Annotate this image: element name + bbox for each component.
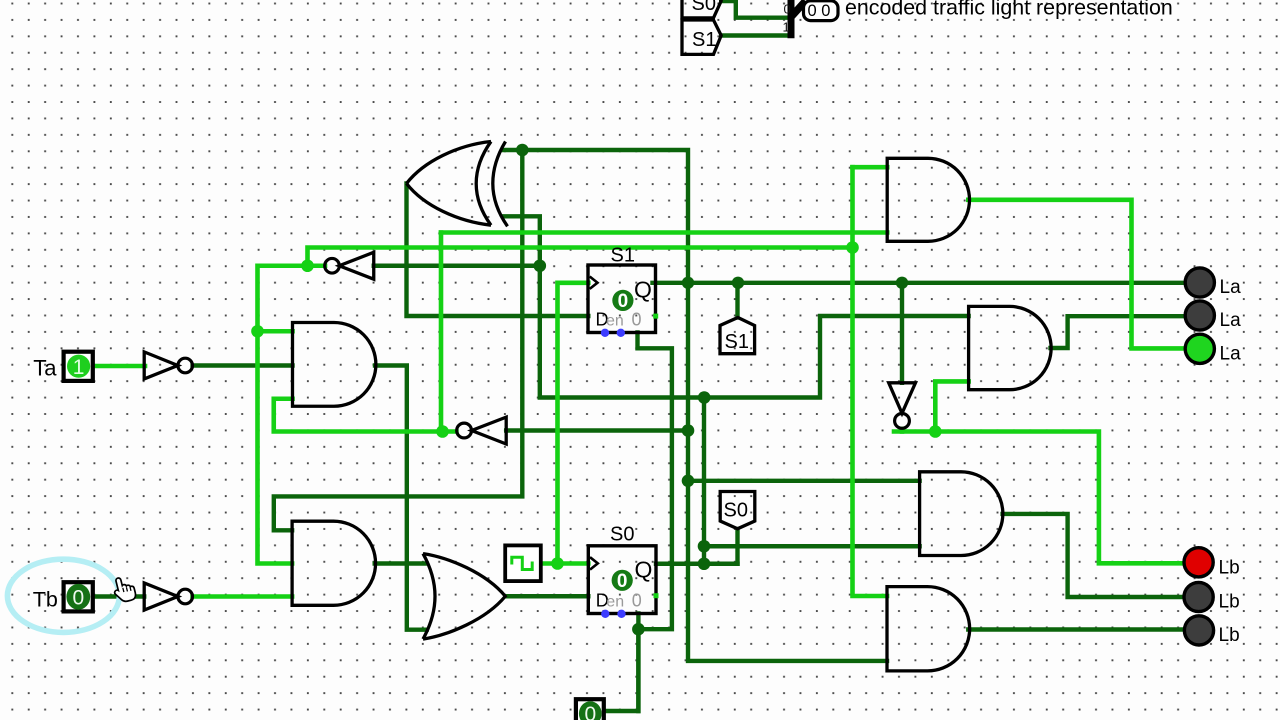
svg-text:Lb: Lb (1219, 557, 1240, 578)
svg-text:La: La (1220, 277, 1242, 298)
svg-text:S1: S1 (611, 245, 635, 267)
svg-text:0: 0 (72, 586, 84, 609)
svg-text:0 0: 0 0 (808, 2, 831, 20)
svg-text:0: 0 (617, 571, 628, 592)
svg-text:La: La (1220, 344, 1242, 365)
svg-text:S0: S0 (724, 500, 748, 522)
svg-text:0: 0 (632, 310, 642, 330)
svg-text:Q: Q (635, 557, 653, 583)
svg-text:0: 0 (784, 1, 791, 16)
svg-text:S1: S1 (725, 331, 749, 353)
svg-text:Ta: Ta (33, 355, 57, 380)
svg-text:Lb: Lb (1219, 592, 1240, 613)
svg-text:en: en (606, 594, 624, 611)
svg-text:encoded traffic light represen: encoded traffic light representation (845, 0, 1173, 20)
svg-text:en: en (606, 313, 624, 330)
svg-text:0: 0 (618, 291, 629, 312)
svg-text:0: 0 (584, 703, 596, 720)
svg-text:0: 0 (632, 591, 642, 611)
svg-text:S1: S1 (692, 29, 716, 51)
svg-text:S0: S0 (610, 524, 634, 546)
svg-text:La: La (1220, 310, 1242, 331)
svg-text:S0: S0 (692, 0, 716, 15)
svg-text:Lb: Lb (1219, 625, 1240, 646)
svg-text:1: 1 (783, 19, 790, 34)
svg-text:1: 1 (73, 356, 85, 379)
svg-text:Tb: Tb (33, 587, 58, 611)
svg-text:Q: Q (634, 277, 652, 303)
